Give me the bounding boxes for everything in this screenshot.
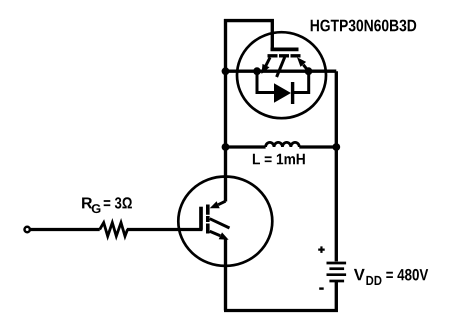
wire: bottom rail from battery bottom to emitter bbox=[224, 281, 336, 310]
wire: left vertical bus (top corner down to bottom IGBT collector) bbox=[224, 19, 227, 202]
node: left terminal dot of top IGBT bbox=[253, 67, 261, 75]
wire: bottom IGBT emitter vertical bbox=[224, 239, 227, 311]
bottom IGBT body bar dashes bbox=[206, 205, 210, 234]
anti-parallel diode D1 bbox=[257, 71, 274, 92]
wire: gate wire left segment from input terminal to resistor bbox=[31, 228, 100, 231]
top IGBT emitter diagonal with arrow to left node bbox=[266, 58, 270, 66]
resistor R_G zigzag bbox=[100, 223, 128, 237]
node: left bus top rail junction bbox=[222, 67, 230, 75]
top IGBT middle channel diagonal bbox=[277, 57, 285, 77]
wire: right vertical from top rail down to battery top bbox=[335, 71, 338, 261]
label = 480V bbox=[386, 269, 428, 281]
label L = 1mH bbox=[253, 154, 305, 165]
label HGTP30N60B3D bbox=[311, 20, 417, 32]
wire: gate wire right segment from resistor to bottom IGBT gate bbox=[127, 228, 203, 231]
bottom IGBT middle channel diagonal bbox=[210, 219, 230, 228]
label RG subscript G bbox=[92, 204, 101, 213]
bottom IGBT gate bar bbox=[199, 207, 203, 230]
label RG part R bbox=[82, 198, 92, 209]
top IGBT collector diagonal with arrow into body bar bbox=[303, 65, 308, 72]
minus sign bbox=[319, 287, 324, 289]
inductor L=1mH bbox=[226, 145, 266, 148]
top IGBT body bar dashes bbox=[268, 54, 301, 57]
label VDD subscript DD bbox=[366, 276, 381, 285]
plus sign bbox=[318, 246, 325, 253]
top IGBT gate bar bbox=[271, 48, 299, 52]
node: right terminal dot of top IGBT bbox=[305, 67, 313, 75]
bottom IGBT collector diagonal with arrow into body bar bbox=[218, 201, 225, 205]
bottom IGBT emitter diagonal with arrow to emitter bbox=[210, 231, 221, 236]
label = 3 ohm bbox=[104, 197, 132, 208]
wire: top-left gate loop horizontal+vertical to top IGBT gate bbox=[224, 21, 272, 48]
wire: top horizontal rail through top IGBT bbox=[226, 70, 337, 73]
node: inductor right junction bbox=[332, 143, 340, 151]
battery VDD plates bbox=[327, 262, 347, 265]
top IGBT U1 circle bbox=[237, 32, 326, 118]
label VDD part V bbox=[354, 269, 365, 280]
bottom IGBT Q1 (DUT) circle bbox=[178, 177, 272, 266]
input terminal (open circle) bbox=[25, 227, 30, 232]
node: inductor left junction bbox=[222, 143, 230, 151]
